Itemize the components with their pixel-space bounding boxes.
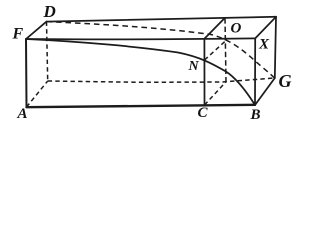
svg-text:A: A [17,106,28,122]
svg-text:X: X [258,37,270,53]
svg-text:D: D [43,2,56,21]
svg-text:N: N [188,59,200,74]
svg-text:F: F [12,26,24,43]
svg-text:B: B [250,107,261,123]
svg-text:G: G [279,71,292,91]
svg-text:C: C [198,105,209,121]
svg-text:O: O [231,21,242,37]
